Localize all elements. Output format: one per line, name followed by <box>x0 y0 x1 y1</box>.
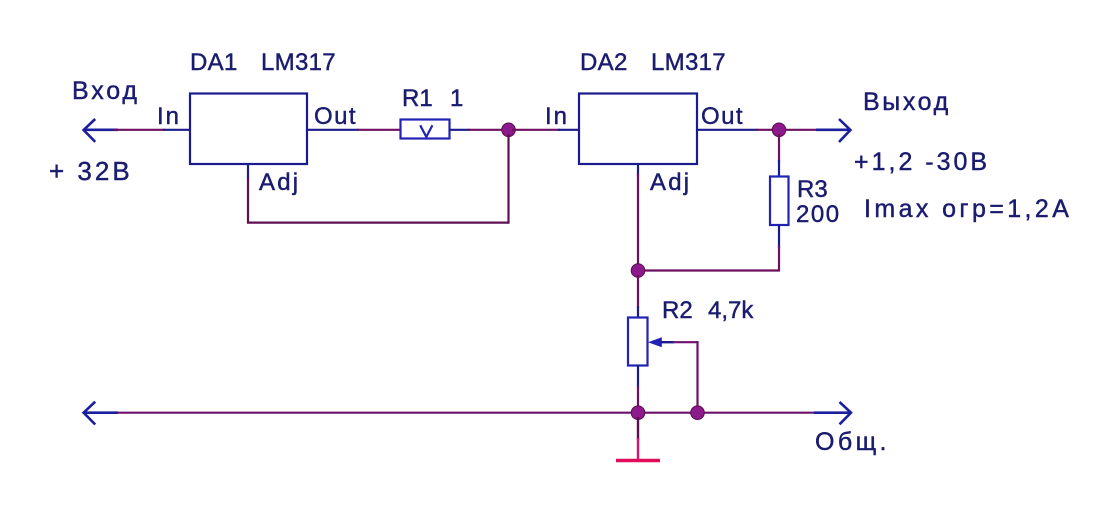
svg-text:1: 1 <box>450 85 463 112</box>
svg-text:Adj: Adj <box>650 169 691 196</box>
svg-text:4,7k: 4,7k <box>708 297 754 324</box>
svg-text:In: In <box>545 103 569 130</box>
common rail left arrow <box>84 402 118 425</box>
wire input to DA1 In pin <box>114 129 190 131</box>
svg-text:Imax огр=1,2А: Imax огр=1,2А <box>864 195 1072 223</box>
svg-text:+1,2 -30В: +1,2 -30В <box>854 148 990 176</box>
common rail wire (net Общ.) <box>112 412 816 414</box>
svg-text:LM317: LM317 <box>261 49 336 76</box>
common rail right arrow <box>814 402 851 424</box>
wire DA1 Out to R1 <box>307 129 400 131</box>
op-amp regulator U DA2 box <box>579 94 697 165</box>
svg-text:200: 200 <box>796 201 841 228</box>
wire feedback up to node A <box>507 134 509 224</box>
svg-text:DA2: DA2 <box>580 49 628 76</box>
svg-text:DA1: DA1 <box>190 49 238 76</box>
wire R2 bottom to node E <box>637 366 639 409</box>
svg-text:Out: Out <box>701 103 744 130</box>
svg-text:Out: Out <box>314 103 357 130</box>
output arrow (right, net Выход) <box>786 119 850 142</box>
svg-text:R3: R3 <box>797 176 828 203</box>
svg-text:+ 32В: + 32В <box>49 156 133 186</box>
wire node B down to R3 <box>778 134 780 177</box>
node D junction dot <box>691 406 705 420</box>
op-amp regulator U DA1 box <box>190 94 307 165</box>
potentiometer R2 body <box>628 318 648 366</box>
label DA1 LM317 <box>190 49 336 76</box>
wire DA1 Adj feedback horizontal <box>247 222 509 224</box>
svg-text:In: In <box>157 103 181 130</box>
svg-text:Выход: Выход <box>863 88 951 116</box>
wire DA2 Out to node B <box>697 129 775 131</box>
label DA2 LM317 <box>580 49 726 76</box>
ground bar <box>616 459 660 463</box>
wire node A to DA2 In pin <box>512 129 579 131</box>
node C junction dot <box>631 264 645 278</box>
svg-text:Adj: Adj <box>259 169 300 196</box>
wire R1 to node A <box>450 129 506 131</box>
label R1 1 <box>402 85 463 112</box>
label R3 200 <box>796 176 841 228</box>
wire DA2 Adj pin down to node C <box>637 164 639 267</box>
potentiometer R2 wiper arrow <box>648 337 674 347</box>
svg-text:LM317: LM317 <box>651 49 726 76</box>
svg-text:R1: R1 <box>402 85 433 112</box>
label R2 4,7k <box>662 297 754 324</box>
svg-text:R2: R2 <box>662 297 693 324</box>
ground stem <box>637 417 639 460</box>
resistor R1 <box>401 120 450 139</box>
resistor R3 <box>770 177 789 226</box>
svg-text:Общ.: Общ. <box>815 428 890 456</box>
svg-text:Вход: Вход <box>72 77 140 105</box>
wire R3 bottom to node C <box>645 225 780 271</box>
wire node C down to R2 <box>637 275 639 318</box>
input arrow (left, net Вход) <box>84 119 118 142</box>
wire R2 wiper to node D <box>673 341 698 408</box>
node A junction dot <box>502 123 516 137</box>
node B junction dot <box>772 123 786 137</box>
node E junction dot <box>631 406 645 420</box>
wire DA1 Adj pin down <box>247 164 249 222</box>
